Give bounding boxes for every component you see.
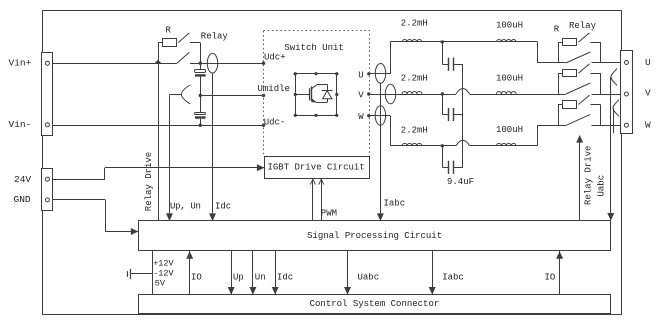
svg-text:W: W <box>645 119 651 130</box>
svg-text:Up, Un: Up, Un <box>170 201 201 211</box>
svg-text:Relay: Relay <box>201 31 229 41</box>
svg-text:PWM: PWM <box>321 208 337 218</box>
svg-text:Umidle: Umidle <box>258 84 290 94</box>
svg-text:Uabc: Uabc <box>596 175 606 197</box>
svg-text:Uabc: Uabc <box>358 273 380 283</box>
svg-text:U: U <box>358 71 363 81</box>
svg-text:Relay: Relay <box>569 21 597 31</box>
svg-text:100uH: 100uH <box>496 21 523 31</box>
svg-text:IO: IO <box>545 273 556 283</box>
svg-text:Vin+: Vin+ <box>9 58 32 69</box>
svg-text:Udc-: Udc- <box>264 117 286 127</box>
svg-text:Iabc: Iabc <box>384 199 406 209</box>
svg-text:5V: 5V <box>155 278 166 288</box>
svg-text:Un: Un <box>255 273 266 283</box>
svg-text:-12V: -12V <box>153 268 174 278</box>
svg-text:Up: Up <box>233 273 244 283</box>
svg-text:Iabc: Iabc <box>442 273 464 283</box>
svg-text:Vin-: Vin- <box>9 119 32 130</box>
svg-text:100uH: 100uH <box>496 73 523 83</box>
svg-text:R: R <box>166 25 172 35</box>
svg-text:R: R <box>554 25 560 35</box>
svg-text:W: W <box>358 112 364 122</box>
svg-text:Relay Drive: Relay Drive <box>144 152 154 211</box>
svg-text:Idc: Idc <box>277 273 293 283</box>
svg-text:Udc+: Udc+ <box>264 53 286 63</box>
svg-text:Control System Connector: Control System Connector <box>310 299 440 309</box>
svg-text:Signal Processing Circuit: Signal Processing Circuit <box>307 231 442 241</box>
svg-text:Idc: Idc <box>215 201 231 211</box>
svg-text:GND: GND <box>14 194 31 205</box>
svg-text:2.2mH: 2.2mH <box>401 126 428 136</box>
svg-text:2.2mH: 2.2mH <box>401 73 428 83</box>
svg-text:+12V: +12V <box>153 258 174 268</box>
svg-text:Switch Unit: Switch Unit <box>284 43 343 53</box>
svg-text:V: V <box>358 91 364 101</box>
svg-text:IGBT Drive Circuit: IGBT Drive Circuit <box>268 163 365 173</box>
svg-text:V: V <box>645 87 651 98</box>
svg-text:9.4uF: 9.4uF <box>447 177 474 187</box>
svg-text:24V: 24V <box>14 174 31 185</box>
svg-text:Relay Drive: Relay Drive <box>583 146 593 205</box>
svg-text:U: U <box>645 57 651 68</box>
svg-text:2.2mH: 2.2mH <box>401 18 428 28</box>
svg-text:IO: IO <box>191 273 202 283</box>
svg-text:100uH: 100uH <box>496 125 523 135</box>
